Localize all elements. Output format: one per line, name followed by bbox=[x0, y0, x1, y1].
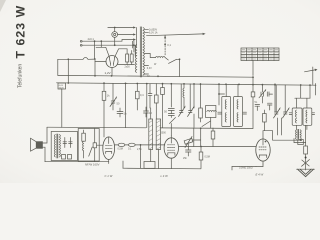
node lamp top bbox=[114, 27, 116, 29]
cap left of can1a bbox=[218, 111, 222, 113]
bus B bbox=[57, 83, 317, 85]
coil osc box bbox=[206, 106, 216, 118]
wire drop x162.5 + box 0.1 bbox=[162, 84, 164, 88]
switch band bbox=[202, 121, 211, 127]
IF can 2a bbox=[292, 108, 302, 125]
wire drop A bbox=[94, 41, 96, 59]
wire drop x171 cluster bbox=[170, 84, 172, 108]
svg-text:0,5M: 0,5M bbox=[205, 156, 210, 159]
resistor 2 bbox=[136, 84, 138, 92]
wire resistor 1 down bbox=[103, 100, 105, 137]
svg-text:T 623 W: T 623 W bbox=[14, 5, 28, 59]
trimmer A feed bbox=[180, 84, 182, 111]
svg-text:1,2V: 1,2V bbox=[105, 71, 111, 75]
wire mains L1 bbox=[84, 40, 134, 42]
node lamp L2 bbox=[114, 44, 116, 46]
cathode rail bbox=[123, 167, 201, 170]
voltage selector table bbox=[241, 48, 279, 61]
speaker magnet bbox=[36, 141, 43, 148]
pickup node 2 bbox=[179, 58, 181, 60]
wire anode left bbox=[96, 47, 110, 57]
wire resistor to AF tube bbox=[97, 144, 103, 146]
cathode wire output bbox=[232, 166, 256, 168]
svg-text:4x0,1: 4x0,1 bbox=[88, 37, 95, 41]
wire drop x104 resistor feed bbox=[103, 84, 105, 92]
cap series x268 bbox=[266, 92, 268, 96]
tone resistor bbox=[83, 130, 85, 133]
svg-text:0,1: 0,1 bbox=[167, 43, 171, 47]
bus junction dots bbox=[67, 75, 311, 86]
IF can 2b bbox=[303, 108, 312, 125]
IF can 1b bbox=[237, 84, 239, 96]
mixer tube bbox=[164, 138, 178, 158]
wire chain drop bbox=[140, 145, 142, 168]
wire drop x194 bbox=[193, 84, 195, 109]
trimmer B bbox=[189, 110, 193, 112]
svg-text:5000: 5000 bbox=[161, 132, 167, 135]
svg-text:2x50: 2x50 bbox=[125, 66, 131, 69]
wire drop x219 bbox=[218, 84, 220, 105]
output transformer primary bbox=[54, 135, 55, 158]
speaker lead top bbox=[43, 127, 47, 143]
small box below coils bbox=[298, 140, 304, 145]
node L1 B bbox=[100, 40, 102, 42]
transformer taps lower bbox=[145, 53, 150, 55]
output transformer box bbox=[51, 132, 77, 161]
capacitor 0.05/500V bbox=[58, 83, 66, 89]
dial lamp bbox=[112, 32, 118, 38]
right chain bbox=[305, 125, 307, 146]
ground V bbox=[298, 169, 314, 176]
mains switch bbox=[58, 58, 83, 60]
svg-text:0,4: 0,4 bbox=[140, 93, 144, 97]
wire drop x60.5 bbox=[61, 89, 63, 127]
bottom row in box bbox=[62, 155, 66, 160]
cap 1nF bbox=[117, 111, 123, 113]
tone box bbox=[78, 129, 99, 162]
capsule 2 bbox=[128, 143, 135, 146]
svg-text:6,3V: 6,3V bbox=[147, 67, 152, 70]
ground rail mid bbox=[47, 126, 146, 129]
wire busA left up bbox=[57, 59, 59, 75]
cap beside can1b bbox=[243, 111, 247, 113]
speaker lead bottom bbox=[43, 147, 45, 162]
svg-text:L 4 W: L 4 W bbox=[161, 174, 169, 178]
trimmer B feed bbox=[189, 84, 191, 111]
wire left drop bbox=[67, 59, 69, 83]
switch mixer bbox=[170, 118, 176, 124]
wire lamp bottom bbox=[114, 37, 116, 45]
wire lamp right bbox=[118, 34, 134, 36]
arrowhead dial bbox=[203, 33, 206, 35]
IF can 2 feed bbox=[300, 85, 302, 98]
resistor below bbox=[200, 147, 202, 153]
node switch left bbox=[67, 58, 69, 60]
transformer primary winding bbox=[135, 45, 136, 73]
wire coil to switch bbox=[165, 58, 168, 61]
wire pot to x201 bbox=[192, 139, 201, 141]
svg-text:25n: 25n bbox=[183, 157, 188, 160]
grid cap dot bbox=[265, 141, 267, 143]
wire filament bbox=[118, 64, 135, 66]
switch pickup bbox=[169, 59, 177, 63]
transformer tap bus bbox=[136, 28, 138, 47]
wire pickup dashed bbox=[164, 35, 166, 55]
speaker horn bbox=[31, 138, 37, 151]
wire secondary to pickup bbox=[150, 54, 155, 58]
wire dial pointer arrow bbox=[147, 34, 204, 36]
resistor 1 bbox=[102, 91, 106, 100]
tone switch bbox=[89, 147, 93, 156]
svg-text:4V: 4V bbox=[147, 75, 150, 78]
wire lamp top bbox=[114, 28, 116, 32]
svg-text:E 4 W: E 4 W bbox=[256, 173, 264, 177]
wire drop B bbox=[100, 41, 102, 47]
dial block left bbox=[149, 119, 153, 150]
wire anode right bbox=[114, 49, 127, 58]
dial block right bbox=[156, 119, 160, 150]
anode wire output bbox=[263, 131, 300, 141]
resistor left of AF tube bbox=[94, 129, 96, 143]
primary hairpin leads bbox=[133, 40, 135, 53]
filter caps 2x50uF bbox=[126, 54, 129, 62]
coil pickup small bbox=[156, 56, 166, 57]
bus A bbox=[58, 75, 253, 77]
variable cap right bbox=[302, 160, 310, 167]
resistor x200 bbox=[200, 84, 202, 109]
trimmer C feed bbox=[275, 85, 277, 112]
cathode bracket bbox=[144, 162, 155, 169]
trimmer C bbox=[275, 111, 279, 113]
resistor x213 bbox=[212, 128, 214, 131]
rectifier AZ11 bbox=[106, 56, 118, 68]
output tube bbox=[256, 139, 270, 161]
wire tube left bbox=[95, 61, 106, 63]
volume pot bbox=[184, 138, 193, 144]
caps with arrows in box bbox=[64, 138, 66, 148]
output trafo right core bbox=[297, 129, 299, 138]
wire table drop bbox=[252, 61, 254, 76]
antenna symbol bbox=[312, 67, 314, 85]
trimmer D feed bbox=[284, 85, 286, 112]
wire mains L2 bbox=[84, 44, 134, 46]
AF tube bbox=[103, 137, 115, 160]
trimmer A bbox=[180, 110, 184, 112]
mains plug bbox=[80, 40, 82, 42]
output transformer core bbox=[56, 134, 58, 158]
resistor right edge bbox=[155, 84, 157, 96]
output transformer secondary bbox=[59, 135, 60, 158]
trimmer x262 bbox=[261, 85, 263, 92]
wire pickup lower bbox=[179, 59, 181, 76]
node chain bbox=[140, 144, 142, 146]
svg-text:0,5M: 0,5M bbox=[118, 148, 123, 151]
can2 bottom links bbox=[295, 125, 297, 129]
table text rows bbox=[242, 50, 278, 59]
wire drop x125.5 bbox=[125, 84, 127, 128]
wire drop x253 resistor bbox=[252, 77, 254, 92]
cap right of can2b bbox=[312, 112, 315, 114]
power transformer core bbox=[139, 27, 141, 77]
transformer taps upper bbox=[145, 28, 149, 30]
cap 25n bbox=[186, 149, 192, 151]
IF can 1a bbox=[225, 84, 227, 96]
cap left of can2a bbox=[289, 112, 292, 114]
corner artifact top-left bbox=[0, 0, 6, 12]
node switch right bbox=[94, 58, 96, 60]
capsule 0.5M bbox=[118, 143, 125, 146]
trimmer D bbox=[284, 111, 288, 113]
dial block drops bbox=[150, 150, 152, 162]
grid wire to output tube bbox=[179, 146, 256, 148]
node x219 bbox=[218, 93, 220, 95]
transformer secondary winding bbox=[143, 28, 144, 76]
svg-text:2,5n: 2,5n bbox=[137, 148, 142, 151]
svg-text:Telefunken: Telefunken bbox=[18, 64, 24, 88]
wire trafo to chain bbox=[293, 139, 295, 143]
arrow to transformer 1 bbox=[133, 26, 136, 28]
coil box drop bbox=[210, 118, 212, 129]
wire drop x146.8 bbox=[146, 84, 148, 128]
coil small x184 bbox=[183, 84, 185, 89]
svg-text:NF/W 160V: NF/W 160V bbox=[85, 163, 100, 167]
arrow to transformer 3 bbox=[133, 38, 136, 40]
wire rectifier cathode bbox=[111, 68, 113, 76]
wire drop x275 bbox=[274, 84, 276, 113]
coupling chain wire bbox=[115, 144, 165, 146]
cap 10n bbox=[144, 110, 149, 112]
resistor x264 bbox=[263, 110, 265, 114]
bottom rail left bbox=[45, 161, 109, 163]
svg-text:6,3V 1A: 6,3V 1A bbox=[149, 32, 158, 35]
node L1 A bbox=[94, 40, 96, 42]
pickup node bbox=[164, 44, 166, 46]
wire mains top bbox=[108, 27, 134, 29]
cap x150 bbox=[149, 84, 151, 94]
trimmer pair left bbox=[112, 84, 114, 102]
arrow to transformer 2 bbox=[133, 33, 136, 35]
wire right edge bbox=[315, 84, 317, 96]
output trafo right coils bbox=[296, 130, 297, 140]
tone coil bbox=[83, 141, 84, 151]
caps row2 bbox=[255, 103, 260, 105]
svg-text:C 1 W: C 1 W bbox=[105, 174, 113, 178]
wire right drop bbox=[94, 59, 96, 76]
arrow to transformer 4 bbox=[133, 44, 136, 46]
